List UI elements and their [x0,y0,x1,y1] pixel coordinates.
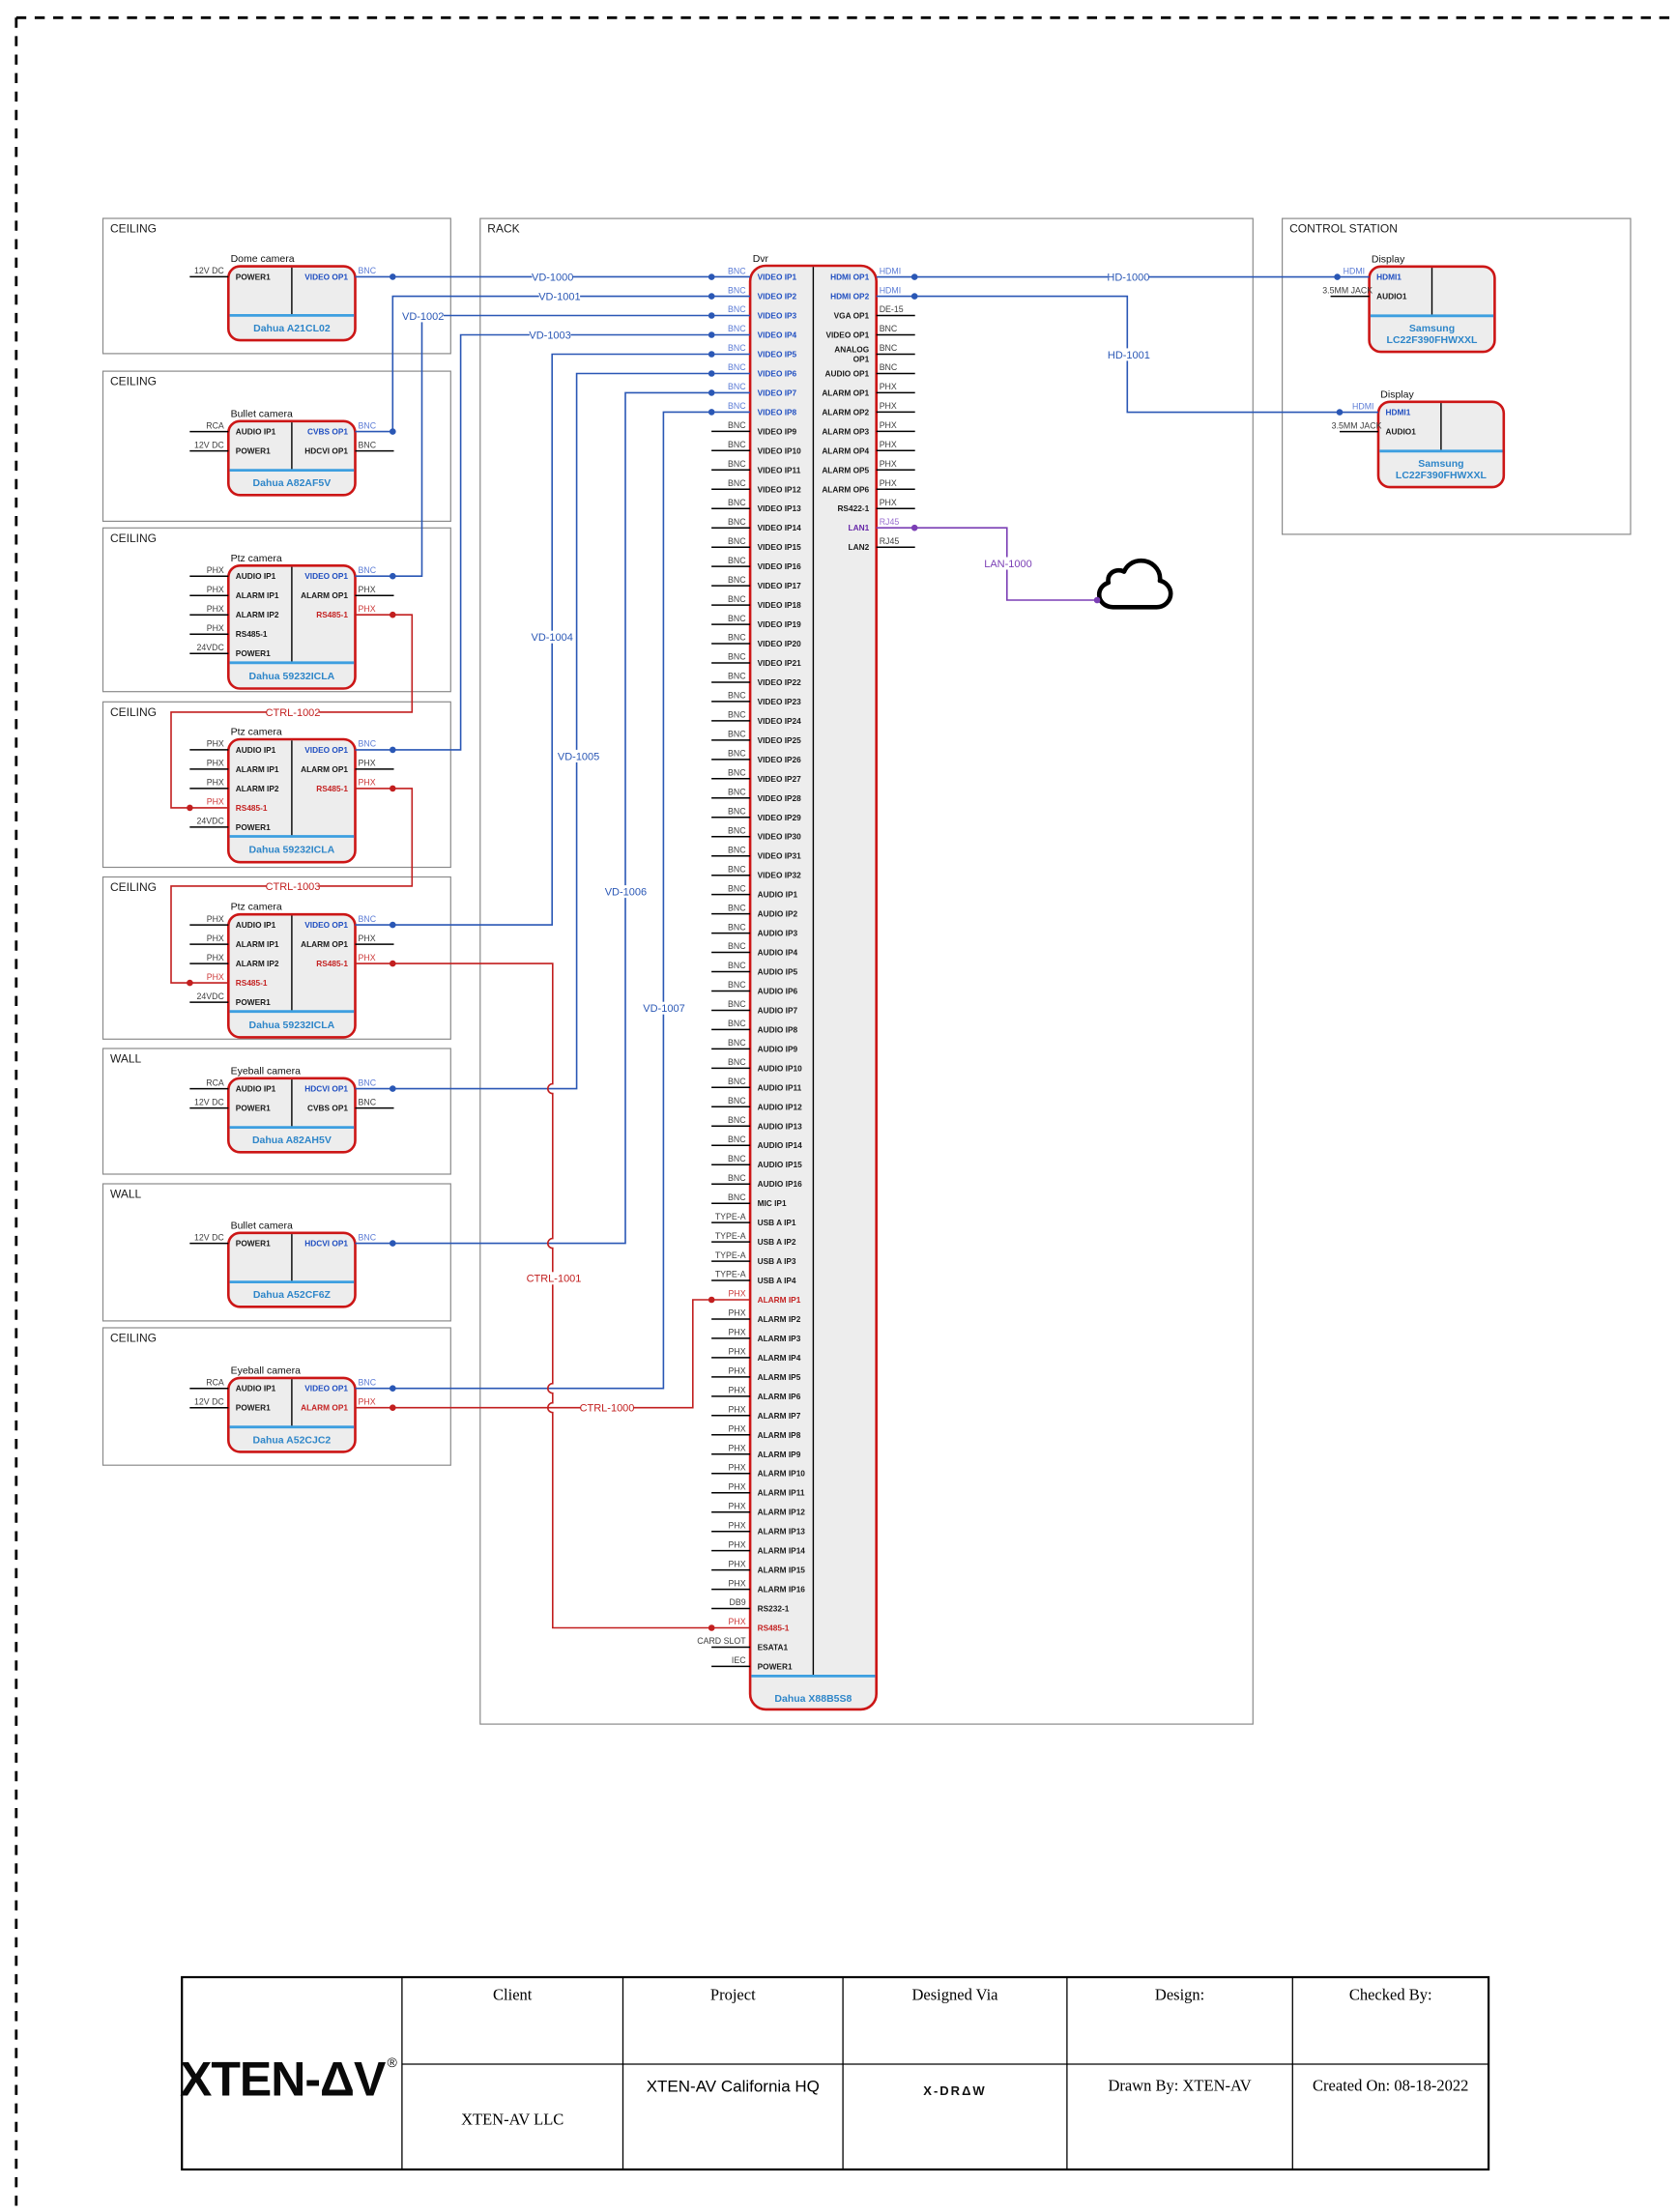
svg-text:PHX: PHX [207,972,224,982]
wire VD-1005 (BNC): eyeball A82AH5V HDCVI OP1 to DVR VIDEO IP6 [356,370,751,1092]
svg-text:LC22F390FHWXXL: LC22F390FHWXXL [1387,334,1479,346]
svg-text:USB A IP4: USB A IP4 [758,1276,796,1285]
svg-text:HDCVI OP1: HDCVI OP1 [304,1239,348,1249]
svg-text:BNC: BNC [728,556,746,565]
svg-text:BNC: BNC [880,362,898,372]
wire VD-1006 (BNC): bullet A52CF6Z HDCVI OP1 to DVR VIDEO IP7 [356,389,751,1247]
svg-text:BNC: BNC [359,420,377,430]
svg-text:BNC: BNC [728,266,746,275]
svg-text:BNC: BNC [728,1154,746,1163]
svg-text:VIDEO IP3: VIDEO IP3 [758,311,797,321]
svg-text:PHX: PHX [880,440,897,449]
svg-text:VIDEO IP20: VIDEO IP20 [758,639,802,648]
svg-text:VIDEO IP1: VIDEO IP1 [758,273,797,282]
svg-text:BNC: BNC [359,1077,377,1087]
svg-text:PHX: PHX [880,478,897,488]
svg-text:BNC: BNC [880,324,898,333]
svg-text:AUDIO IP1: AUDIO IP1 [236,920,276,930]
svg-text:VIDEO IP19: VIDEO IP19 [758,619,802,629]
svg-text:VIDEO IP7: VIDEO IP7 [758,388,797,397]
svg-text:Eyeball camera: Eyeball camera [231,1365,302,1376]
svg-text:PHX: PHX [729,1424,746,1434]
svg-text:12V DC: 12V DC [194,1396,224,1406]
svg-text:PHX: PHX [729,1501,746,1510]
svg-text:AUDIO IP1: AUDIO IP1 [236,1384,276,1393]
svg-text:12V DC: 12V DC [194,1097,224,1106]
svg-text:Checked By:: Checked By: [1349,1986,1432,2004]
svg-text:WALL: WALL [110,1052,142,1066]
display 2 Samsung LC22F390FHWXXL [1332,388,1504,487]
svg-text:BNC: BNC [728,1019,746,1028]
svg-text:CTRL-1002: CTRL-1002 [266,707,321,719]
svg-text:PHX: PHX [359,934,376,943]
svg-text:®: ® [388,2054,398,2070]
svg-text:VIDEO IP13: VIDEO IP13 [758,503,802,513]
svg-text:BNC: BNC [728,1077,746,1086]
svg-text:OP1: OP1 [853,355,870,364]
svg-text:PHX: PHX [729,1481,746,1491]
svg-text:RACK: RACK [487,222,519,236]
svg-text:ALARM OP1: ALARM OP1 [301,590,348,600]
svg-text:AUDIO IP15: AUDIO IP15 [758,1160,802,1169]
svg-text:AUDIO IP16: AUDIO IP16 [758,1179,802,1189]
svg-text:LAN1: LAN1 [849,523,870,532]
svg-text:Ptz camera: Ptz camera [231,553,282,564]
svg-text:Dome camera: Dome camera [231,253,295,265]
wire CTRL-1000 (PHX): eyeball A52CJC2 ALARM OP1 to DVR ALARM IP1 [356,1297,751,1415]
svg-text:PHX: PHX [729,1328,746,1337]
svg-text:BNC: BNC [728,845,746,854]
svg-text:PHX: PHX [207,759,224,768]
area box 7 WALL (bullet camera) [103,1184,451,1321]
camera ptz 2 Dahua 59232ICLA [189,727,393,863]
svg-text:BNC: BNC [728,961,746,970]
svg-text:VIDEO IP28: VIDEO IP28 [758,793,802,803]
svg-text:BNC: BNC [728,883,746,893]
svg-text:Bullet camera: Bullet camera [231,408,293,419]
wire HD-1001 (HDMI): DVR HDMI OP2 to display 2 HDMI1 [877,293,1378,416]
svg-text:AUDIO IP1: AUDIO IP1 [236,427,276,437]
svg-text:BNC: BNC [728,922,746,932]
svg-text:BNC: BNC [728,440,746,449]
svg-text:XTEN-AV California HQ: XTEN-AV California HQ [647,2078,820,2096]
svg-text:AUDIO IP12: AUDIO IP12 [758,1102,802,1111]
svg-text:VIDEO OP1: VIDEO OP1 [825,330,869,340]
svg-text:BNC: BNC [728,459,746,469]
svg-text:BNC: BNC [728,536,746,546]
wire VD-1007 (BNC): eyeball A52CJC2 VIDEO OP1 to DVR VIDEO IP8 [356,409,751,1392]
svg-text:RCA: RCA [206,1377,224,1387]
svg-text:BNC: BNC [728,478,746,488]
svg-text:ALARM IP14: ALARM IP14 [758,1546,806,1556]
wire VD-1003 (BNC): ptz2 VIDEO OP1 to DVR VIDEO IP4 [356,329,751,753]
svg-text:CTRL-1000: CTRL-1000 [580,1403,635,1415]
svg-text:VIDEO IP31: VIDEO IP31 [758,851,802,861]
svg-text:ALARM OP2: ALARM OP2 [822,407,869,417]
svg-text:Created On: 08-18-2022: Created On: 08-18-2022 [1313,2077,1468,2095]
svg-text:VIDEO IP32: VIDEO IP32 [758,871,802,880]
svg-text:ALARM IP2: ALARM IP2 [236,610,279,619]
svg-text:VIDEO IP10: VIDEO IP10 [758,445,802,455]
svg-text:PHX: PHX [729,1347,746,1357]
svg-text:BNC: BNC [728,864,746,874]
svg-text:WALL: WALL [110,1188,142,1201]
svg-text:VIDEO OP1: VIDEO OP1 [304,571,348,581]
wire HD-1000 (HDMI): DVR HDMI OP1 to display 1 HDMI1 [877,271,1370,283]
svg-text:24VDC: 24VDC [196,991,224,1001]
svg-text:BNC: BNC [728,672,746,681]
area box 6 WALL (eyeball camera) [103,1049,451,1174]
svg-text:RS485-1: RS485-1 [316,959,348,968]
svg-text:ALARM IP12: ALARM IP12 [758,1508,806,1517]
svg-text:12V DC: 12V DC [194,440,224,449]
svg-text:VIDEO IP5: VIDEO IP5 [758,350,797,359]
svg-text:VIDEO IP6: VIDEO IP6 [758,369,797,379]
svg-text:ALARM IP8: ALARM IP8 [758,1430,801,1440]
svg-text:PHX: PHX [729,1462,746,1472]
svg-text:PHX: PHX [729,1405,746,1415]
svg-text:Dvr: Dvr [753,253,769,265]
wire VD-1001 (BNC): bullet CVBS OP1 to DVR VIDEO IP2 [356,290,751,435]
area box 4 CEILING (ptz camera 2) [103,702,451,867]
svg-text:DE-15: DE-15 [880,304,904,314]
svg-text:BNC: BNC [359,1097,377,1106]
svg-text:ALARM IP2: ALARM IP2 [758,1314,801,1324]
camera bullet Dahua A82AF5V [189,408,393,495]
camera ptz 1 Dahua 59232ICLA [189,553,393,689]
svg-text:VIDEO IP30: VIDEO IP30 [758,832,802,842]
camera bullet Dahua A52CF6Z [189,1220,376,1307]
svg-text:BNC: BNC [728,285,746,295]
svg-text:PHX: PHX [359,585,376,594]
svg-text:VIDEO IP25: VIDEO IP25 [758,735,802,745]
svg-text:CONTROL STATION: CONTROL STATION [1289,222,1398,236]
svg-text:BNC: BNC [728,633,746,643]
svg-text:POWER1: POWER1 [236,822,271,832]
svg-text:AUDIO IP8: AUDIO IP8 [758,1024,798,1034]
svg-text:BNC: BNC [359,266,377,275]
svg-text:Designed Via: Designed Via [912,1986,999,2004]
svg-text:CEILING: CEILING [110,531,157,545]
wire VD-1000 (BNC): dome VIDEO OP1 to DVR VIDEO IP1 [356,271,751,283]
svg-text:Eyeball camera: Eyeball camera [231,1065,302,1077]
svg-text:Dahua A82AH5V: Dahua A82AH5V [252,1135,332,1146]
svg-text:POWER1: POWER1 [236,272,271,281]
svg-text:LAN-1000: LAN-1000 [984,559,1032,570]
svg-text:RJ45: RJ45 [880,517,900,527]
svg-text:AUDIO IP1: AUDIO IP1 [236,745,276,755]
svg-text:PHX: PHX [729,1559,746,1568]
svg-text:RS232-1: RS232-1 [758,1604,790,1614]
svg-text:VIDEO IP4: VIDEO IP4 [758,330,797,340]
svg-text:VIDEO IP15: VIDEO IP15 [758,542,802,552]
svg-text:MIC IP1: MIC IP1 [758,1198,787,1208]
wire CTRL-1002 (PHX): ptz1 RS485-1 to ptz2 RS485-1 [171,612,412,811]
svg-text:TYPE-A: TYPE-A [715,1250,746,1260]
svg-text:HDMI: HDMI [880,285,901,295]
svg-text:BNC: BNC [728,730,746,739]
area box 5 CEILING (ptz camera 3) [103,877,451,1040]
svg-text:3.5MM JACK: 3.5MM JACK [1322,285,1373,295]
svg-text:POWER1: POWER1 [236,1403,271,1413]
svg-text:Samsung: Samsung [1418,458,1463,470]
svg-text:VD-1002: VD-1002 [402,311,444,323]
svg-text:PHX: PHX [207,585,224,594]
svg-text:TYPE-A: TYPE-A [715,1231,746,1241]
svg-text:TYPE-A: TYPE-A [715,1270,746,1279]
area box 3 CEILING (ptz camera 1) [103,528,451,691]
svg-text:VIDEO IP9: VIDEO IP9 [758,426,797,436]
svg-text:XTEN-ΔV: XTEN-ΔV [180,2053,387,2107]
svg-text:Dahua A21CL02: Dahua A21CL02 [253,323,331,334]
svg-text:BNC: BNC [728,788,746,797]
svg-text:ALARM IP5: ALARM IP5 [758,1372,801,1382]
svg-text:BNC: BNC [728,807,746,817]
svg-text:VIDEO IP23: VIDEO IP23 [758,697,802,706]
svg-text:PHX: PHX [207,914,224,924]
svg-text:BNC: BNC [728,575,746,585]
svg-text:AUDIO OP1: AUDIO OP1 [825,369,870,379]
svg-text:Client: Client [493,1986,533,2004]
title block table [182,1977,1488,2169]
svg-text:VIDEO IP11: VIDEO IP11 [758,465,801,474]
svg-text:AUDIO IP11: AUDIO IP11 [758,1082,802,1092]
svg-text:ALARM IP1: ALARM IP1 [236,764,279,774]
svg-text:ALARM OP5: ALARM OP5 [822,465,869,474]
svg-text:HD-1001: HD-1001 [1108,350,1150,361]
svg-text:PHX: PHX [880,498,897,507]
svg-text:AUDIO IP4: AUDIO IP4 [758,948,798,958]
svg-text:AUDIO IP10: AUDIO IP10 [758,1063,802,1073]
svg-text:CEILING: CEILING [110,880,157,894]
svg-text:AUDIO IP6: AUDIO IP6 [758,987,798,996]
svg-text:BNC: BNC [728,304,746,314]
svg-text:ALARM IP1: ALARM IP1 [758,1295,801,1305]
svg-text:RCA: RCA [206,420,224,430]
svg-text:PHX: PHX [359,759,376,768]
svg-text:ALARM IP4: ALARM IP4 [758,1353,801,1363]
svg-text:ALARM IP11: ALARM IP11 [758,1488,805,1498]
svg-text:AUDIO1: AUDIO1 [1386,427,1417,437]
svg-text:AUDIO IP2: AUDIO IP2 [758,909,798,919]
svg-text:BNC: BNC [728,749,746,759]
svg-text:AUDIO1: AUDIO1 [1376,292,1407,302]
svg-text:AUDIO IP7: AUDIO IP7 [758,1006,798,1016]
svg-text:USB A IP1: USB A IP1 [758,1218,796,1227]
svg-text:BNC: BNC [880,343,898,353]
svg-text:IEC: IEC [732,1655,746,1665]
svg-text:Project: Project [710,1986,756,2004]
display 1 Samsung LC22F390FHWXXL [1322,253,1494,352]
svg-text:Dahua A52CJC2: Dahua A52CJC2 [253,1434,332,1446]
svg-text:BNC: BNC [728,594,746,604]
svg-text:PHX: PHX [880,459,897,469]
area box CONTROL STATION [1283,218,1631,534]
svg-text:VIDEO IP12: VIDEO IP12 [758,484,802,494]
svg-text:CEILING: CEILING [110,705,157,719]
svg-text:ALARM OP1: ALARM OP1 [301,764,348,774]
svg-text:AUDIO IP13: AUDIO IP13 [758,1121,802,1131]
svg-text:PHX: PHX [729,1520,746,1530]
svg-text:VIDEO IP16: VIDEO IP16 [758,561,802,571]
svg-text:PHX: PHX [729,1617,746,1626]
wire CTRL-1001 (PHX): ptz3 RS485-1 to DVR RS485-1 [356,961,751,1631]
svg-text:AUDIO IP14: AUDIO IP14 [758,1140,802,1150]
svg-text:VD-1004: VD-1004 [531,632,572,644]
svg-text:PHX: PHX [729,1539,746,1549]
svg-text:ALARM IP6: ALARM IP6 [758,1392,801,1401]
svg-text:TYPE-A: TYPE-A [715,1212,746,1221]
svg-text:VD-1000: VD-1000 [532,272,573,283]
svg-text:BNC: BNC [728,1096,746,1106]
logo XTEN-AV [180,2053,398,2107]
svg-text:RS485-1: RS485-1 [236,629,268,639]
svg-text:DB9: DB9 [729,1597,745,1607]
svg-text:ALARM IP16: ALARM IP16 [758,1585,806,1594]
area box RACK [480,218,1254,1724]
wire VD-1004 (BNC): ptz3 VIDEO OP1 to DVR VIDEO IP5 [356,351,751,928]
DVR Dahua X88B5S8 [697,253,914,1709]
svg-text:BNC: BNC [359,565,377,575]
svg-text:VIDEO IP27: VIDEO IP27 [758,774,802,784]
svg-text:HDMI OP1: HDMI OP1 [830,273,869,282]
svg-text:VIDEO OP1: VIDEO OP1 [304,272,348,281]
svg-text:AUDIO IP5: AUDIO IP5 [758,967,798,977]
svg-text:POWER1: POWER1 [236,648,271,658]
svg-text:Design:: Design: [1155,1986,1204,2004]
svg-text:PHX: PHX [729,1444,746,1453]
svg-text:VIDEO IP22: VIDEO IP22 [758,677,802,687]
svg-text:PHX: PHX [207,739,224,749]
svg-text:PHX: PHX [207,953,224,962]
svg-text:ALARM OP6: ALARM OP6 [822,484,869,494]
svg-text:CTRL-1003: CTRL-1003 [266,881,321,893]
svg-text:ALARM IP3: ALARM IP3 [758,1334,801,1343]
svg-text:RS485-1: RS485-1 [236,803,268,813]
svg-text:VIDEO IP17: VIDEO IP17 [758,581,802,590]
svg-text:VD-1006: VD-1006 [605,887,647,899]
svg-text:RS422-1: RS422-1 [837,503,869,513]
svg-text:BNC: BNC [728,1135,746,1144]
svg-text:Dahua 59232ICLA: Dahua 59232ICLA [249,845,335,856]
svg-text:LC22F390FHWXXL: LC22F390FHWXXL [1396,470,1488,481]
wire CTRL-1003 (PHX): ptz2 RS485-1 to ptz3 RS485-1 [171,786,412,987]
svg-text:BNC: BNC [728,382,746,391]
svg-text:HDCVI OP1: HDCVI OP1 [304,446,348,456]
svg-text:BNC: BNC [728,941,746,951]
svg-text:AUDIO IP3: AUDIO IP3 [758,929,798,938]
svg-text:BNC: BNC [728,825,746,835]
svg-text:HDMI OP2: HDMI OP2 [830,292,869,302]
svg-text:PHX: PHX [207,778,224,788]
svg-text:PHX: PHX [729,1366,746,1376]
svg-text:ALARM OP1: ALARM OP1 [301,1403,348,1413]
svg-text:PHX: PHX [207,565,224,575]
svg-text:BNC: BNC [359,739,377,749]
svg-text:BNC: BNC [728,498,746,507]
wire VD-1002 (BNC): ptz1 VIDEO OP1 to DVR VIDEO IP3 [356,309,751,579]
svg-text:ALARM IP9: ALARM IP9 [758,1450,801,1459]
svg-text:Dahua 59232ICLA: Dahua 59232ICLA [249,671,335,682]
svg-text:BNC: BNC [728,710,746,720]
svg-text:HDMI: HDMI [1344,266,1365,275]
camera eyeball Dahua A82AH5V [189,1065,393,1152]
svg-text:ALARM IP2: ALARM IP2 [236,784,279,793]
svg-text:VIDEO IP29: VIDEO IP29 [758,813,802,822]
svg-text:ALARM OP3: ALARM OP3 [822,426,869,436]
svg-text:VIDEO IP2: VIDEO IP2 [758,292,797,302]
svg-text:ALARM IP15: ALARM IP15 [758,1566,806,1575]
svg-text:VIDEO IP8: VIDEO IP8 [758,407,797,417]
svg-text:PHX: PHX [729,1578,746,1588]
svg-text:Dahua A82AF5V: Dahua A82AF5V [253,477,332,489]
svg-text:ESATA1: ESATA1 [758,1643,789,1652]
svg-text:VIDEO OP1: VIDEO OP1 [304,745,348,755]
svg-text:BNC: BNC [359,1377,377,1387]
svg-text:BNC: BNC [359,1232,377,1242]
camera dome Dahua A21CL02 [189,253,376,340]
svg-text:HDMI: HDMI [880,266,901,275]
svg-text:CTRL-1001: CTRL-1001 [527,1274,582,1285]
camera ptz 3 Dahua 59232ICLA [189,902,393,1038]
svg-text:POWER1: POWER1 [236,446,271,456]
svg-text:X-DRΔW: X-DRΔW [923,2083,986,2098]
svg-text:Samsung: Samsung [1409,323,1455,334]
svg-text:HD-1000: HD-1000 [1107,273,1149,284]
svg-text:POWER1: POWER1 [236,1104,271,1113]
svg-text:BNC: BNC [728,691,746,701]
svg-text:VIDEO OP1: VIDEO OP1 [304,920,348,930]
svg-text:ALARM OP4: ALARM OP4 [822,445,869,455]
svg-text:VGA OP1: VGA OP1 [834,311,870,321]
svg-text:Bullet camera: Bullet camera [231,1220,293,1231]
svg-text:PHX: PHX [207,934,224,943]
svg-text:PHX: PHX [207,797,224,807]
svg-text:POWER1: POWER1 [236,997,271,1007]
svg-text:PHX: PHX [729,1289,746,1299]
svg-text:BNC: BNC [728,1192,746,1202]
svg-text:BNC: BNC [728,768,746,778]
svg-text:HDMI1: HDMI1 [1376,273,1401,282]
cloud (network) [1099,560,1170,607]
svg-text:Dahua X88B5S8: Dahua X88B5S8 [774,1693,852,1705]
title block entries [461,2077,1468,2129]
svg-text:ALARM IP7: ALARM IP7 [758,1411,801,1421]
svg-text:BNC: BNC [728,614,746,623]
svg-text:VIDEO OP1: VIDEO OP1 [304,1384,348,1393]
svg-text:AUDIO IP1: AUDIO IP1 [236,571,276,581]
svg-text:AUDIO IP1: AUDIO IP1 [236,1084,276,1094]
svg-text:BNC: BNC [728,1173,746,1183]
svg-text:3.5MM JACK: 3.5MM JACK [1332,420,1382,430]
svg-text:CEILING: CEILING [110,222,157,236]
svg-text:HDMI: HDMI [1352,401,1373,411]
svg-text:12V DC: 12V DC [194,1232,224,1242]
svg-text:RS485-1: RS485-1 [316,784,348,793]
svg-text:CARD SLOT: CARD SLOT [697,1636,746,1646]
svg-text:USB A IP2: USB A IP2 [758,1237,796,1247]
svg-text:BNC: BNC [728,1038,746,1048]
svg-text:PHX: PHX [729,1386,746,1395]
svg-text:24VDC: 24VDC [196,643,224,652]
svg-text:BNC: BNC [359,914,377,924]
area box 1 CEILING (dome camera) [103,218,451,354]
svg-text:ALARM OP1: ALARM OP1 [822,388,869,397]
svg-text:CEILING: CEILING [110,1332,157,1345]
svg-text:ALARM IP13: ALARM IP13 [758,1527,806,1537]
svg-text:BNC: BNC [728,420,746,430]
svg-text:Display: Display [1380,388,1414,400]
